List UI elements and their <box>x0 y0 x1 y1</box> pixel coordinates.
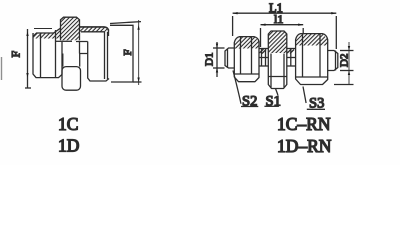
dimension D2 <box>334 42 354 85</box>
leader + label S1 <box>264 89 279 107</box>
left nut outline <box>234 37 259 82</box>
right hex B <box>110 25 133 82</box>
left stud <box>225 48 234 68</box>
right nut outline <box>296 34 328 85</box>
tube/ferrule left gap <box>259 49 268 67</box>
hatched center hex top <box>268 31 287 53</box>
svg-text:1C: 1C <box>58 114 78 134</box>
svg-text:S1: S1 <box>266 93 281 109</box>
center hex hanging bottom <box>62 67 81 91</box>
svg-text:S2: S2 <box>242 93 257 109</box>
svg-text:F: F <box>9 51 23 58</box>
cone band <box>80 27 109 36</box>
left nut outline <box>33 28 62 77</box>
hatched section: nut band + center hex + cone band <box>33 17 109 40</box>
dimension F left <box>25 29 31 88</box>
svg-text:S3: S3 <box>309 96 324 112</box>
svg-text:1C–RN: 1C–RN <box>277 114 331 134</box>
tube right gap <box>287 49 296 67</box>
hatched left nut band <box>234 37 259 49</box>
svg-text:D1: D1 <box>204 53 216 66</box>
right stud <box>328 51 338 71</box>
dimension L1 <box>233 12 337 49</box>
right hex A <box>88 32 109 81</box>
dimension F right <box>110 20 142 85</box>
svg-text:D2: D2 <box>339 54 351 67</box>
center hex body (raised top) <box>56 17 80 41</box>
svg-text:1D: 1D <box>58 136 79 156</box>
dimension l1 <box>261 24 304 48</box>
body neck block <box>63 42 88 67</box>
leader + label S3 <box>303 87 325 110</box>
svg-text:F: F <box>122 49 134 55</box>
svg-text:1D–RN: 1D–RN <box>277 136 332 156</box>
leader + label S2 <box>233 71 258 107</box>
dimension D1 <box>213 42 225 77</box>
center hex outline <box>268 31 287 89</box>
svg-text:l1: l1 <box>274 12 283 26</box>
hatched right nut band <box>296 34 328 46</box>
